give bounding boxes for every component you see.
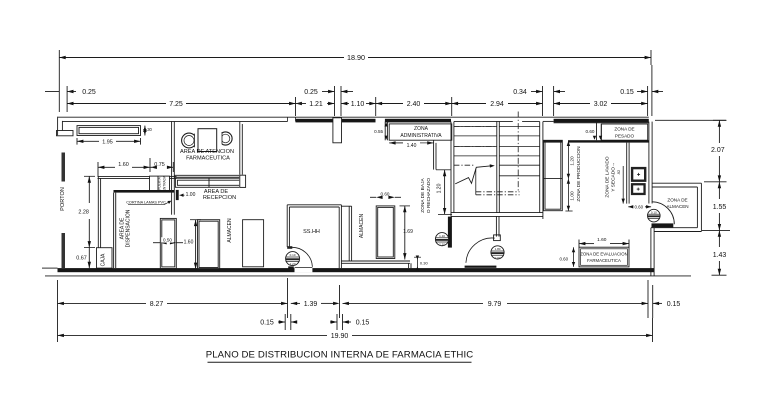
dimension 0.60 shelf4 [370, 196, 376, 198]
dimension 1.95 counter [77, 140, 99, 142]
svg-text:PESADO: PESADO [615, 133, 635, 138]
svg-text:0.15: 0.15 [620, 89, 634, 96]
svg-text:1.39: 1.39 [304, 301, 318, 308]
stairs bottom wall [451, 212, 543, 214]
stairs door arc [466, 238, 495, 263]
svg-text:2.20: 2.20 [290, 262, 296, 266]
svg-text:0.34: 0.34 [513, 89, 527, 96]
dimension 19.90 overall bottom [58, 334, 328, 336]
caja box [97, 248, 113, 268]
svg-text:FARMACEUTICA: FARMACEUTICA [186, 155, 230, 161]
zona de almacen bottom wall [651, 227, 698, 229]
dimension 1.39 [291, 302, 300, 304]
svg-text:RECEPCION: RECEPCION [203, 195, 236, 201]
svg-text:1.60: 1.60 [118, 162, 129, 168]
dimension 1.43 [718, 230, 720, 247]
svg-text:1.80: 1.80 [495, 247, 501, 251]
extension line notch bottom [702, 229, 730, 231]
svg-text:ZONA DE: ZONA DE [614, 127, 634, 132]
atencion left wall [171, 122, 173, 215]
svg-text:ZONA DE LAVADO: ZONA DE LAVADO [605, 156, 611, 197]
ss hh door leaf [288, 266, 294, 269]
svg-text:DISPENSACION: DISPENSACION [126, 209, 132, 247]
svg-text:ALMACEN: ALMACEN [359, 214, 365, 239]
dimension 0.67 [88, 248, 90, 269]
stair direction break line with arrow [455, 166, 491, 184]
svg-text:ZONA DE BAJA: ZONA DE BAJA [420, 178, 426, 213]
porton door leaf upper [62, 153, 66, 182]
svg-text:PUERTA: PUERTA [158, 176, 162, 190]
dimension 0.92 lavado [622, 166, 624, 204]
svg-text:0.00: 0.00 [495, 256, 501, 260]
wall D vertical x98 [97, 176, 99, 247]
wall A horizontal y176 [98, 175, 150, 177]
dimension 8.27 [57, 280, 59, 342]
stair hidden dash-dot treads [454, 126, 497, 128]
dimension 1.10 [341, 103, 349, 105]
svg-text:ZONA DE EVALUACION: ZONA DE EVALUACION [580, 251, 627, 256]
svg-text:1.60: 1.60 [184, 240, 194, 246]
dimension 1.55 [718, 182, 720, 199]
svg-text:19.90: 19.90 [331, 333, 349, 340]
wall J vertical lavado [626, 143, 628, 204]
top wall black section 3 [385, 119, 451, 123]
svg-text:1.00: 1.00 [570, 191, 576, 201]
zona de almacen door arc [652, 202, 674, 224]
chair left [182, 133, 197, 148]
dimension 2.07 [718, 120, 720, 143]
atencion right wall [239, 122, 241, 177]
svg-text:CAJA: CAJA [100, 253, 106, 266]
svg-text:1.60: 1.60 [597, 237, 607, 243]
svg-text:9.79: 9.79 [488, 301, 502, 308]
svg-text:ZONA: ZONA [414, 126, 429, 132]
dimension 0.30 gap [416, 257, 418, 271]
right wall upper [648, 122, 650, 204]
svg-text:3.02: 3.02 [594, 101, 608, 108]
svg-text:1.43: 1.43 [713, 252, 727, 259]
chair right [219, 132, 232, 145]
dimension 2.40 [376, 103, 403, 105]
svg-text:1.10: 1.10 [439, 234, 445, 238]
stairs left wall [450, 122, 452, 217]
svg-text:1.55: 1.55 [713, 204, 727, 211]
porton door leaf lower [62, 233, 66, 268]
sink lower [631, 183, 646, 195]
svg-text:ALMACEN: ALMACEN [227, 218, 233, 243]
ss hh walls [286, 205, 288, 247]
svg-text:2.40: 2.40 [407, 101, 421, 108]
cabinet K produccion [544, 140, 563, 210]
zona de evaluacion farmaceutica box [579, 247, 629, 267]
svg-text:0.10: 0.10 [651, 211, 657, 215]
top wall opening end caps [287, 117, 289, 121]
svg-text:0.60: 0.60 [381, 191, 390, 196]
svg-text:1.95: 1.95 [102, 140, 113, 146]
porton sill line left [42, 267, 58, 269]
sink upper [631, 167, 647, 182]
svg-text:0.15: 0.15 [356, 319, 370, 326]
level symbol C2 [491, 246, 504, 259]
svg-text:ALMACEN: ALMACEN [666, 204, 688, 209]
stairs door leaf [465, 266, 497, 268]
svg-text:2.20: 2.20 [439, 243, 445, 247]
svg-text:0.60: 0.60 [586, 129, 595, 134]
dimension 1.60 and 0.75 [98, 166, 115, 168]
wall stub below recepcion counter [176, 190, 179, 200]
dimension 7.25 [67, 103, 166, 105]
svg-text:0.25: 0.25 [82, 89, 96, 96]
wall counter top-left [77, 126, 141, 136]
dimension 1.20 corridor [444, 170, 446, 215]
svg-text:0.30: 0.30 [420, 260, 429, 265]
svg-text:2.94: 2.94 [490, 101, 504, 108]
svg-text:1.40: 1.40 [407, 143, 417, 149]
wall B horizontal y190 [114, 190, 175, 193]
wall E vertical x350 [348, 206, 350, 261]
bottom wall outer thin line [45, 275, 691, 277]
wall F return to bottom wall [408, 263, 410, 268]
svg-text:1.20: 1.20 [436, 183, 442, 193]
admin partition wall vertical [433, 140, 435, 169]
stair dash-dot center line vertical [517, 112, 519, 192]
black wall bar G [448, 217, 452, 248]
svg-text:0.15: 0.15 [260, 319, 274, 326]
shelf with 0.50 dim [160, 218, 176, 268]
svg-text:0.25: 0.25 [304, 89, 318, 96]
zona de pesado box [601, 124, 647, 140]
ss hh door arc [291, 247, 313, 266]
svg-text:1.21: 1.21 [309, 101, 323, 108]
dimension 1.40 [389, 141, 395, 144]
svg-text:PORTON: PORTON [60, 187, 66, 211]
top wall inner line above stairs [454, 120, 513, 122]
drain symbol zona de almacen [648, 209, 661, 222]
svg-text:1.10: 1.10 [351, 101, 365, 108]
shelf 3 [243, 220, 264, 267]
counter end cap [239, 175, 246, 188]
svg-text:8.27: 8.27 [150, 301, 164, 308]
shelf 2 almacen-left [198, 220, 220, 269]
zona de pesado left wall [596, 122, 598, 141]
stair treads upper both flights [454, 126, 497, 128]
atencion room south wall [174, 174, 244, 176]
svg-text:0.10: 0.10 [290, 253, 296, 257]
dimension 18.90 overall top [59, 57, 344, 59]
dimension 2.28 [88, 176, 90, 203]
svg-text:PLANO DE DISTRIBUCION INTERNA: PLANO DE DISTRIBUCION INTERNA DE FARMACI… [206, 350, 474, 361]
extension line notch top [704, 181, 727, 183]
svg-text:0.60: 0.60 [635, 205, 644, 210]
column pillar at top wall [333, 118, 342, 143]
svg-text:0.67: 0.67 [76, 256, 87, 262]
recepcion counter [175, 178, 245, 187]
dimension 1.20 produccion [567, 140, 569, 211]
svg-text:1.00: 1.00 [186, 192, 196, 198]
dimension 0.60 evaluacion [573, 247, 575, 267]
dimension 3.02 [554, 103, 590, 105]
dimension 0.60 almacen door [628, 206, 633, 208]
left wall stub top [57, 117, 59, 136]
ss hh door gap in bottom wall [295, 268, 313, 273]
dimension 0.50 shelf [153, 242, 160, 244]
svg-text:0.15: 0.15 [667, 301, 681, 308]
svg-text:CORTINA LAMAS PVC: CORTINA LAMAS PVC [126, 200, 166, 204]
svg-text:.92: .92 [616, 169, 621, 175]
extension line right top [651, 65, 653, 116]
zona de almacen right wall [700, 183, 702, 231]
desk [198, 129, 217, 152]
dimension 9.79 [343, 302, 484, 304]
top wall black section 1 [296, 119, 333, 123]
right wall lower [650, 228, 652, 276]
dimension 1.69 [404, 206, 406, 260]
svg-text:ENTRADA: ENTRADA [163, 175, 167, 191]
top wall outer line [58, 116, 649, 118]
shelf 4 [376, 206, 395, 259]
wall 0.55 vertical [384, 122, 386, 141]
dimension 2.94 [452, 103, 486, 105]
dimension 1.60 vertical shelf [195, 220, 197, 269]
svg-text:0.30: 0.30 [144, 127, 153, 132]
ss hh wall end tip [287, 246, 292, 249]
top wall inner line corridor [543, 120, 554, 122]
svg-text:ZONA DE PRODUCCION: ZONA DE PRODUCCION [576, 146, 582, 202]
left wall cap [57, 131, 74, 136]
level symbol C1 [435, 233, 448, 246]
zona de almacen door leaf [652, 223, 674, 227]
dimension 0.25 top-left [45, 91, 59, 93]
svg-text:0.55: 0.55 [374, 129, 383, 134]
svg-text:7.25: 7.25 [169, 101, 183, 108]
dimension 0.15 bottom-right [652, 285, 654, 318]
svg-text:AREA DE: AREA DE [119, 217, 125, 239]
extension line right upper [655, 119, 727, 121]
svg-text:1.20: 1.20 [570, 156, 576, 166]
svg-text:SS.HH: SS.HH [303, 229, 320, 235]
dimension 0.15 bottom-mid pair [330, 321, 337, 323]
svg-text:Y SECADO→: Y SECADO→ [610, 162, 616, 192]
svg-text:0.75: 0.75 [154, 162, 165, 168]
svg-text:ADMINISTRATIVA: ADMINISTRATIVA [400, 133, 442, 139]
wall F horizontal y261 [341, 260, 410, 262]
svg-text:2.07: 2.07 [711, 147, 725, 154]
bottom wall black band [58, 268, 655, 272]
ss hh drain symbol [286, 252, 300, 266]
zona de almacen top wall [652, 182, 701, 184]
svg-text:0.60: 0.60 [560, 257, 569, 262]
top wall black section 2 [342, 119, 376, 123]
stairs door frame [495, 216, 497, 236]
dimension 1.60 evaluacion [579, 243, 594, 245]
svg-text:18.90: 18.90 [347, 53, 365, 62]
dimension 0.30 counter depth [144, 126, 146, 136]
zona administrativa box [389, 124, 452, 140]
svg-text:ZONA DE: ZONA DE [667, 197, 687, 202]
svg-text:AREA DE: AREA DE [204, 189, 229, 195]
entrance door box [150, 176, 170, 191]
stair center rail [496, 122, 498, 213]
svg-text:AREA DE ATENCION: AREA DE ATENCION [180, 149, 234, 155]
svg-text:2.28: 2.28 [78, 209, 89, 215]
svg-text:0.50: 0.50 [163, 237, 172, 242]
wall C vertical x114 [113, 193, 115, 269]
svg-text:FARMACEUTICA: FARMACEUTICA [587, 258, 621, 263]
top wall black section right [554, 119, 649, 123]
extension line left top [58, 65, 60, 112]
svg-text:1.69: 1.69 [403, 229, 413, 235]
svg-text:O RECHAZADO: O RECHAZADO [426, 178, 432, 213]
stairs right wall [539, 122, 541, 213]
top wall inner line left section [62, 120, 287, 122]
wall I horizontal y141 [543, 140, 563, 142]
stair hidden landing lines [476, 191, 520, 193]
